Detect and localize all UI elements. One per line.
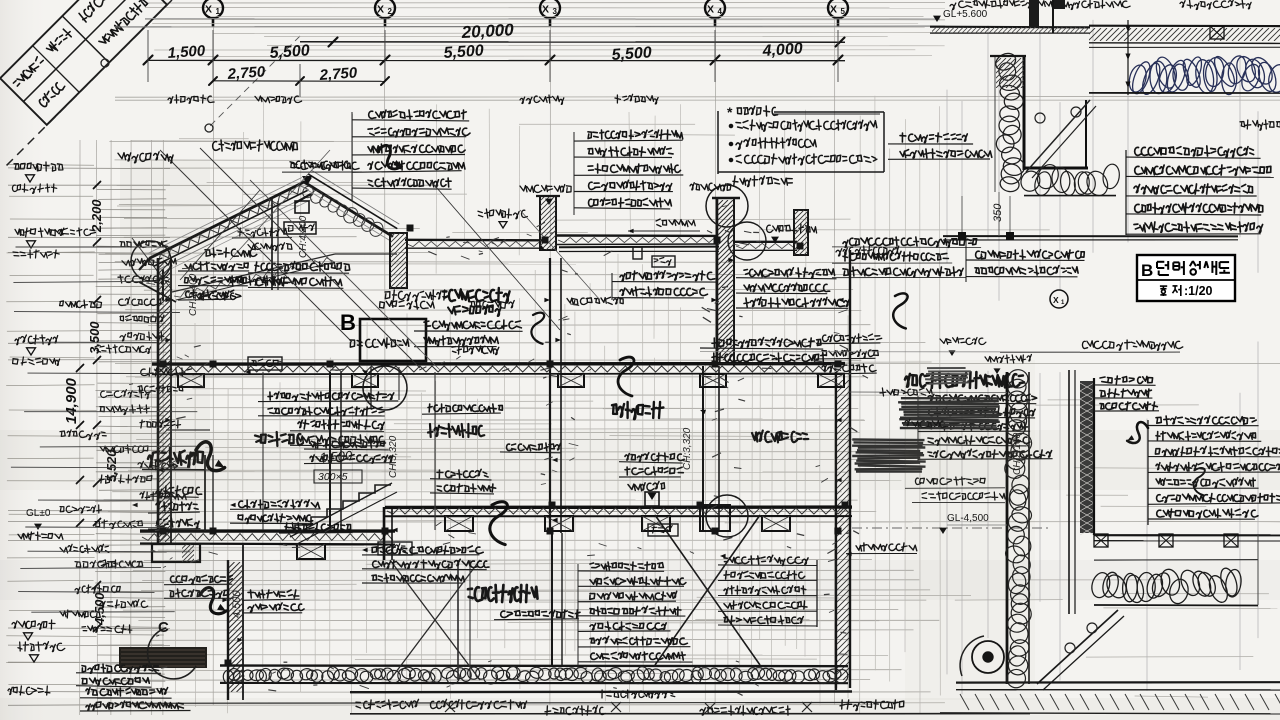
diagonal dashed boundary line	[6, 0, 172, 166]
svg-text:2,200: 2,200	[89, 199, 104, 233]
small filled arrows on leaders	[369, 110, 467, 119]
svg-text:*: *	[727, 104, 733, 120]
svg-text:5: 5	[841, 7, 846, 16]
svg-text:350: 350	[992, 203, 1004, 222]
svg-text:3,500: 3,500	[87, 321, 102, 354]
extra leader arrowheads	[205, 248, 257, 257]
svg-text:5,500: 5,500	[269, 42, 310, 62]
svg-text:B: B	[1141, 261, 1153, 280]
rotated corner title table	[0, 0, 167, 125]
svg-text:CH:4,200: CH:4,200	[298, 215, 309, 258]
svg-text:4,000: 4,000	[761, 40, 803, 60]
svg-text:14,900: 14,900	[63, 377, 80, 424]
circle detail under B box	[150, 182, 304, 258]
pencil construction grid	[145, 2, 945, 5]
svg-text:5,500: 5,500	[443, 42, 484, 62]
svg-text:1: 1	[216, 7, 221, 16]
svg-text:X: X	[1053, 295, 1059, 305]
svg-text:2,750: 2,750	[318, 64, 358, 84]
svg-text::1/20: :1/20	[1184, 284, 1213, 298]
svg-text:X: X	[205, 4, 212, 16]
paper smudge bands	[0, 430, 1280, 490]
svg-text:4: 4	[718, 7, 723, 16]
svg-text:X: X	[542, 4, 549, 16]
dark small squares junction markers	[210, 361, 217, 368]
svg-text:2: 2	[388, 7, 393, 16]
sketch noise ticks	[441, 362, 445, 363]
dimension row 2,750 2,750	[210, 16, 923, 18]
svg-text:GL+5.600: GL+5.600	[943, 9, 988, 20]
bottom long scribble rows	[268, 392, 394, 401]
svg-text:2,750: 2,750	[226, 63, 266, 83]
svg-text:X: X	[707, 4, 714, 16]
svg-text:20,000: 20,000	[460, 20, 514, 42]
second floor small window sills	[700, 505, 730, 531]
leaders from building to right details	[848, 391, 1007, 394]
svg-text:B: B	[340, 310, 356, 335]
svg-text:5,500: 5,500	[611, 44, 652, 64]
grid bubbles X1..X5	[203, 0, 223, 18]
svg-text:GL±0: GL±0	[26, 508, 51, 519]
left vertical dimension figures	[14, 162, 63, 171]
svg-text:1,500: 1,500	[167, 42, 206, 62]
svg-text:X: X	[377, 4, 384, 16]
svg-text:3: 3	[553, 7, 558, 16]
svg-text:X: X	[830, 4, 837, 16]
